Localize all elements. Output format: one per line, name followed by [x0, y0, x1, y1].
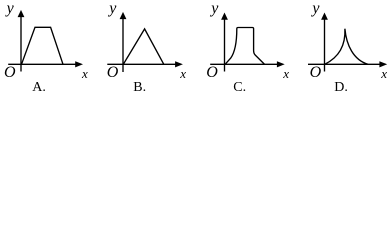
y-axis A arrowhead [18, 10, 25, 17]
label x A [82, 67, 88, 80]
y-axis A [20, 15, 22, 72]
label option A [32, 81, 46, 95]
x-axis C arrowhead [277, 61, 285, 67]
label option C [233, 81, 246, 95]
x-axis D arrowhead [379, 61, 387, 67]
y-axis D arrowhead [321, 13, 328, 20]
label O C [206, 65, 218, 81]
label option B [133, 81, 146, 95]
y-axis C arrowhead [221, 13, 228, 20]
label O D [310, 65, 322, 81]
x-axis B [107, 63, 178, 65]
x-axis B arrowhead [175, 61, 183, 67]
y-axis D [324, 18, 326, 72]
label x B [180, 67, 186, 80]
label O B [107, 65, 119, 81]
curve A trapezoid [22, 27, 64, 64]
label y C [211, 1, 218, 17]
label x C [283, 67, 289, 80]
x-axis D [308, 63, 383, 65]
label option D [334, 81, 348, 95]
label y B [109, 1, 116, 17]
y-axis B [122, 17, 124, 72]
x-axis C [210, 63, 280, 65]
x-axis A arrowhead [75, 61, 83, 67]
label y A [7, 1, 14, 17]
label y D [312, 1, 319, 17]
curve B triangle [123, 29, 164, 64]
label x D [381, 67, 387, 80]
curve D cusp [325, 29, 368, 65]
y-axis B arrowhead [120, 12, 127, 19]
label O A [4, 65, 16, 81]
curve C plateau [225, 28, 265, 65]
y-axis C [224, 18, 226, 72]
x-axis A [8, 63, 78, 65]
